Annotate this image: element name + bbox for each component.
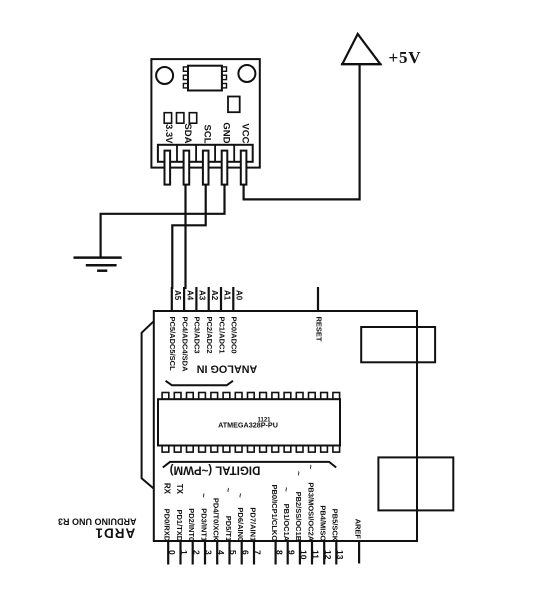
svg-text:AREF: AREF [353, 519, 362, 540]
svg-text:A1: A1 [222, 290, 231, 301]
svg-text:DIGITAL (~PWM): DIGITAL (~PWM) [170, 464, 261, 476]
svg-text:RESET: RESET [314, 317, 323, 342]
pin stub 6 [241, 541, 243, 565]
svg-text:3: 3 [204, 550, 214, 555]
svg-text:7: 7 [253, 550, 263, 555]
svg-text:8: 8 [274, 550, 284, 555]
pin stub 2 [192, 541, 194, 565]
svg-text:3.3V: 3.3V [163, 124, 174, 144]
sensor pin leg 3.3V [165, 151, 171, 185]
svg-text:PC1/ADC1: PC1/ADC1 [217, 317, 226, 354]
sensor IC chip U2 [188, 66, 222, 91]
svg-text:PC3/ADC3: PC3/ADC3 [193, 317, 202, 354]
svg-text:GND: GND [220, 122, 231, 143]
svg-text:12: 12 [323, 550, 333, 560]
wire SCL to A5 [172, 184, 205, 289]
sensor mounting hole left [156, 67, 173, 84]
arduino board notch flap [142, 321, 154, 488]
wire SDA to A4 [184, 184, 186, 289]
svg-text:PB5/SCK: PB5/SCK [331, 509, 340, 542]
svg-text:PC5/ADC5/SCL: PC5/ADC5/SCL [168, 317, 177, 372]
pin stub 12 [323, 541, 325, 565]
digital group bracket [163, 462, 336, 468]
sensor module U1 board outline [151, 59, 259, 168]
pin stub RESET [317, 287, 319, 311]
svg-text:2: 2 [191, 550, 201, 555]
sensor component C1 [228, 97, 240, 113]
svg-text:TX: TX [175, 484, 184, 495]
sensor pin leg GND [222, 151, 228, 185]
pin stub 11 [311, 541, 313, 565]
svg-text:1: 1 [179, 550, 189, 555]
analog group bracket [166, 381, 233, 386]
sensor component R1 [164, 113, 171, 124]
svg-text:PD0/RXD: PD0/RXD [163, 509, 172, 542]
pin stub A1 [220, 287, 222, 311]
svg-text:A3: A3 [198, 290, 207, 301]
pin stub 3 [204, 541, 206, 565]
arduino usb connector [361, 327, 435, 362]
svg-text:+5V: +5V [389, 48, 422, 67]
svg-text:PD5/T1: PD5/T1 [224, 516, 233, 541]
svg-text:PD1/TXD: PD1/TXD [175, 510, 184, 542]
svg-text:0: 0 [167, 550, 177, 555]
svg-text:5: 5 [228, 550, 238, 555]
ground [74, 256, 122, 259]
pin stub 9 [287, 541, 289, 565]
svg-text:PB0/ICP1/CLKO: PB0/ICP1/CLKO [270, 485, 279, 542]
pin stub 4 [216, 541, 218, 565]
svg-text:RX: RX [163, 483, 172, 495]
svg-text:PD7/AIN1: PD7/AIN1 [248, 507, 257, 541]
svg-text:4: 4 [216, 550, 226, 555]
svg-text:PD2/INT0: PD2/INT0 [187, 508, 196, 541]
wire GND to ground [101, 184, 225, 257]
svg-text:A0: A0 [235, 290, 244, 301]
svg-text:A2: A2 [210, 290, 219, 301]
svg-text:ATMEGA328P-PU: ATMEGA328P-PU [218, 421, 278, 430]
svg-text:11: 11 [311, 550, 321, 559]
svg-text:A5: A5 [173, 290, 182, 301]
svg-text:SCL: SCL [202, 125, 213, 144]
svg-text:VCC: VCC [239, 123, 250, 143]
svg-text:PD3/INT1: PD3/INT1 [199, 508, 208, 541]
svg-text:SDA: SDA [182, 123, 193, 143]
svg-text:PB1/OC1A: PB1/OC1A [282, 504, 291, 542]
svg-text:9: 9 [286, 550, 296, 555]
pin stub 0 [167, 541, 169, 565]
svg-text:~: ~ [235, 493, 244, 498]
svg-text:PD4/T0/XCK: PD4/T0/XCK [212, 498, 221, 542]
pin stub A5 [171, 287, 173, 311]
IC U3 ATMEGA328P-PU [158, 399, 340, 445]
svg-text:PB3/MOSI/OC2A: PB3/MOSI/OC2A [306, 482, 315, 541]
svg-text:ANALOG IN: ANALOG IN [197, 363, 258, 375]
pin stub A2 [208, 287, 210, 311]
svg-text:~: ~ [223, 488, 232, 493]
svg-text:13: 13 [335, 550, 345, 560]
svg-text:ARD1: ARD1 [95, 526, 136, 541]
svg-text:PC4/ADC4/SDA: PC4/ADC4/SDA [180, 317, 189, 373]
svg-text:10: 10 [299, 550, 309, 560]
svg-text:PD6/AIN0: PD6/AIN0 [236, 507, 245, 541]
svg-text:~: ~ [199, 493, 208, 498]
arduino ARD1 board outline [154, 311, 417, 541]
power +5V symbol [342, 34, 380, 64]
wire VCC to +5V [244, 65, 360, 200]
pin stub 7 [253, 541, 255, 565]
pin stub A3 [195, 287, 197, 311]
arduino power connector [378, 457, 453, 510]
svg-text:PC2/ADC2: PC2/ADC2 [205, 317, 214, 354]
svg-text:PC0/ADC0: PC0/ADC0 [230, 317, 239, 354]
pin stub 5 [228, 541, 230, 565]
pin stub 1 [179, 541, 181, 565]
sensor pin leg VCC [241, 151, 247, 185]
pin stub A0 [232, 287, 234, 311]
pin stub 10 [299, 541, 301, 565]
pin stub A4 [183, 287, 185, 311]
svg-text:~: ~ [306, 465, 315, 470]
svg-text:ARDUINO UNO R3: ARDUINO UNO R3 [58, 516, 137, 526]
svg-text:6: 6 [240, 550, 250, 555]
svg-text:PB4/MISO: PB4/MISO [319, 505, 328, 541]
svg-text:A4: A4 [185, 290, 194, 301]
sensor pin leg SCL [203, 151, 209, 185]
pin stub AREF [358, 541, 360, 564]
pin stub 8 [275, 541, 277, 565]
svg-text:PB2/SS/OC1B: PB2/SS/OC1B [294, 492, 303, 542]
sensor component R3 [189, 113, 196, 124]
pin stub 13 [335, 541, 337, 565]
sensor mounting hole right [238, 65, 255, 82]
sensor pin header [158, 145, 253, 162]
svg-text:~: ~ [294, 471, 303, 476]
svg-text:~: ~ [281, 487, 290, 492]
sensor component R2 [177, 113, 184, 124]
sensor pin leg SDA [184, 151, 190, 185]
